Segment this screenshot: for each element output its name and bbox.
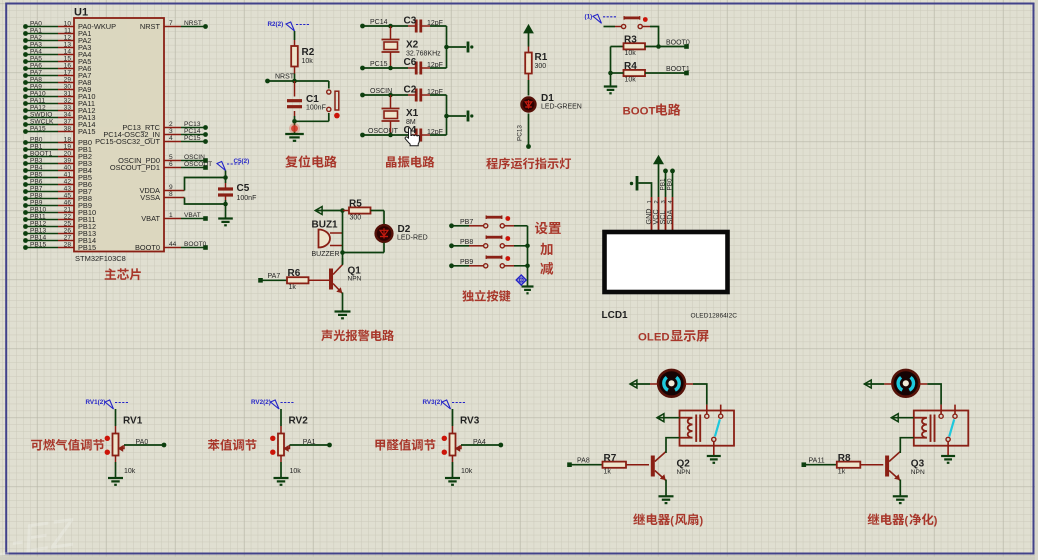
U1 pin 44 (BOOT0) with wire and node <box>135 241 208 252</box>
svg-text:VBAT: VBAT <box>184 212 201 219</box>
svg-text:17: 17 <box>64 69 72 76</box>
svg-text:(1): (1) <box>585 14 593 21</box>
wire to X1 ground bar <box>447 115 467 117</box>
potentiometer RV2 <box>270 416 308 476</box>
ground bar X2 <box>468 42 473 53</box>
crystal X2 <box>382 26 442 68</box>
svg-text:(: ( <box>905 515 909 527</box>
blue marker RV1(2) <box>86 399 129 409</box>
svg-text:SWDIO: SWDIO <box>30 111 52 118</box>
blue marker (1) <box>585 14 617 24</box>
node C1 bottom junction <box>292 119 297 124</box>
label 程序运行指示灯 <box>486 158 571 170</box>
svg-text:20: 20 <box>64 150 72 157</box>
wire button bottom to C1 <box>295 113 329 121</box>
svg-text:PB11: PB11 <box>30 213 46 220</box>
U1 pin 42 (PB6) with wire and node <box>23 178 92 189</box>
wire coil bottom Q2 <box>666 438 693 451</box>
node OSCIN terminal <box>360 93 365 98</box>
svg-text:PA6: PA6 <box>30 62 42 69</box>
svg-text:PB1: PB1 <box>660 178 667 191</box>
wire coil bottom Q3 <box>900 438 927 451</box>
wire PB8 row left <box>452 239 484 246</box>
svg-text:OSCIN: OSCIN <box>184 154 205 161</box>
wire C4 right and riser <box>422 95 447 135</box>
svg-text:RV3(2): RV3(2) <box>423 399 443 406</box>
svg-text:PB7: PB7 <box>460 219 473 226</box>
resistor R1 <box>525 52 548 74</box>
svg-text:PB10: PB10 <box>30 206 46 213</box>
wire Q3 collector <box>899 451 901 454</box>
ground below C5 <box>218 219 233 226</box>
svg-text:SDA: SDA <box>665 210 674 225</box>
wire OSCIN row <box>363 88 416 95</box>
transistor Q2 <box>651 452 691 481</box>
svg-text:LED-GREEN: LED-GREEN <box>541 104 582 111</box>
node PB0 terminal <box>670 169 675 174</box>
svg-text:PA12: PA12 <box>30 104 46 111</box>
wire Q2 emitter to ground <box>665 480 667 497</box>
U1 pin 18 (PB0) with wire and node <box>23 136 92 147</box>
node OSCOUT terminal <box>360 133 365 138</box>
svg-text:300: 300 <box>535 63 547 70</box>
node R4 junction <box>608 71 613 76</box>
svg-text:PB8: PB8 <box>30 192 43 199</box>
svg-text:34: 34 <box>64 111 72 118</box>
node PC13 terminal bottom <box>526 144 531 149</box>
resistor R8 <box>837 453 861 476</box>
wire PB9 row right <box>504 265 527 267</box>
svg-text:31: 31 <box>64 90 72 97</box>
LCD1 value label <box>691 313 738 320</box>
wire keys vertical <box>527 226 529 287</box>
label 苯值调节 <box>208 439 257 451</box>
svg-text:27: 27 <box>64 234 72 241</box>
node X2 top junction <box>388 24 393 29</box>
ground relay Q2 <box>707 456 721 463</box>
svg-text:C5(2): C5(2) <box>234 158 250 165</box>
node R3-button junction <box>656 44 661 49</box>
svg-text:(: ( <box>670 515 674 527</box>
U1 pin 20 (BOOT1) with wire and node <box>23 150 92 161</box>
svg-text:BUZ1: BUZ1 <box>312 220 339 231</box>
U1 pin 4 (PC15) with wire and node <box>95 135 208 146</box>
ground keys <box>522 287 534 294</box>
label OLED显示屏 <box>638 330 709 343</box>
wire RV3 bottom <box>452 456 454 479</box>
ground RV2 <box>274 478 289 485</box>
wire Q2 collector <box>665 451 667 454</box>
U1 pin 28 (PB15) with wire and node <box>23 241 96 252</box>
svg-text:29: 29 <box>64 76 72 83</box>
svg-text:28: 28 <box>64 241 72 248</box>
svg-text:PB12: PB12 <box>30 220 46 227</box>
wire R6 to Q1 base <box>309 279 330 281</box>
svg-text:9: 9 <box>169 184 173 191</box>
relay RL near Q2 <box>680 405 735 446</box>
U1 pin 21 (PB10) with wire and node <box>23 206 96 217</box>
svg-text:PC14: PC14 <box>184 128 201 135</box>
power flag above R1 <box>524 25 532 32</box>
svg-text:10k: 10k <box>625 77 637 84</box>
svg-text:45: 45 <box>64 192 72 199</box>
pushbutton BOOT wires <box>604 27 659 47</box>
svg-text:PB6: PB6 <box>30 178 43 185</box>
svg-text:18: 18 <box>64 136 72 143</box>
U1 pin 38 (PA15) with wire and node <box>23 125 95 136</box>
wire to X2 ground bar <box>447 46 467 48</box>
wire Q3 emitter to ground <box>899 480 901 497</box>
wire R3 left <box>611 46 624 48</box>
svg-text:NRST: NRST <box>140 22 161 31</box>
node PB9 terminal <box>449 263 454 268</box>
origin marker red glow <box>289 123 300 134</box>
svg-text:12: 12 <box>64 34 72 41</box>
wire C1 top <box>294 81 296 97</box>
power flag alarm <box>315 207 342 215</box>
wire RV2 top <box>279 409 281 434</box>
svg-text:37: 37 <box>64 118 72 125</box>
svg-text:PA7: PA7 <box>30 69 42 76</box>
U1 pin 19 (PB1) with wire and node <box>23 143 92 154</box>
relay RL near Q3 <box>914 405 969 446</box>
capacitor C2 <box>404 85 443 102</box>
svg-text:42: 42 <box>64 178 72 185</box>
label 复位电路 <box>285 155 337 167</box>
svg-text:PC14: PC14 <box>370 19 388 26</box>
svg-text:PB14: PB14 <box>30 234 46 241</box>
U1 pin 30 (PA9) with wire and node <box>23 83 91 94</box>
svg-text:46: 46 <box>64 199 72 206</box>
node PB8 terminal <box>449 243 454 248</box>
wire RV3 wiper to PA4 <box>461 439 501 446</box>
ground Q3 <box>893 496 908 503</box>
svg-text:PA4: PA4 <box>30 48 42 55</box>
svg-text:Q3: Q3 <box>911 459 925 470</box>
wire C2 right <box>422 94 447 96</box>
svg-text:1: 1 <box>647 200 653 203</box>
svg-text:PA9: PA9 <box>30 83 42 90</box>
svg-text:13: 13 <box>64 41 72 48</box>
svg-text:D2: D2 <box>398 224 411 235</box>
svg-text:PA2: PA2 <box>30 34 42 41</box>
svg-text:LED-RED: LED-RED <box>397 235 428 242</box>
U1 pin 39 (PB3) with wire and node <box>23 157 92 168</box>
U1 pin 17 (PA7) with wire and node <box>23 69 91 80</box>
wire OLED GND <box>639 183 652 197</box>
node BOOT0 terminal <box>684 44 689 49</box>
svg-text:VSSA: VSSA <box>140 193 160 202</box>
U1 pin 43 (PB7) with wire and node <box>23 185 92 196</box>
wire PA8 to R7 <box>570 458 603 465</box>
svg-text:RV2: RV2 <box>289 416 309 427</box>
svg-text:PA11: PA11 <box>30 97 45 104</box>
svg-text:BOOT: BOOT <box>623 106 656 118</box>
wire PA7 to R6 <box>261 273 288 280</box>
node PC14 terminal <box>360 24 365 29</box>
resistor R3 <box>624 35 646 58</box>
svg-text:NPN: NPN <box>348 276 362 283</box>
svg-text:26: 26 <box>64 227 72 234</box>
svg-text:4: 4 <box>169 135 173 142</box>
node PA0 terminal <box>162 443 167 448</box>
svg-text:SWCLK: SWCLK <box>30 118 54 125</box>
capacitor C3 <box>404 16 443 33</box>
label 甲醛值调节 <box>375 439 435 451</box>
svg-text:NPN: NPN <box>677 469 691 476</box>
svg-text:10k: 10k <box>290 468 302 475</box>
wire PB9 row left <box>452 259 484 266</box>
svg-text:3: 3 <box>661 200 667 203</box>
svg-text:300: 300 <box>350 215 362 222</box>
svg-text:R1: R1 <box>535 52 548 63</box>
power flag relay coil Q3 <box>891 414 927 422</box>
svg-text:PA7: PA7 <box>268 273 281 280</box>
U1 pin 33 (PA12) with wire and node <box>23 104 95 115</box>
blue marker RV2(2) <box>251 399 294 409</box>
node X2 bottom junction <box>388 66 393 71</box>
svg-text:NPN: NPN <box>911 469 925 476</box>
wire PB7 row left <box>452 219 484 226</box>
node alarm junction <box>340 250 345 255</box>
label 晶振电路 <box>386 156 434 168</box>
svg-text:U1: U1 <box>74 7 88 19</box>
capacitor C5 <box>218 183 256 202</box>
wire relay switch to ground Q3 <box>947 442 949 457</box>
node PA4 terminal <box>498 443 503 448</box>
resistor R7 <box>603 453 627 476</box>
svg-text:10k: 10k <box>461 468 473 475</box>
label 独立按键 <box>462 290 510 302</box>
wire RV2 bottom <box>280 456 282 479</box>
svg-text:10k: 10k <box>625 50 637 57</box>
svg-text:BUZZER: BUZZER <box>312 251 340 258</box>
svg-text:RV1(2): RV1(2) <box>86 399 106 406</box>
wire D1 to PC13 node <box>517 114 529 147</box>
capacitor C6 <box>404 57 443 75</box>
svg-text:R8: R8 <box>838 453 851 464</box>
svg-text:43: 43 <box>64 185 72 192</box>
node PA1 terminal <box>327 443 332 448</box>
pushbutton reset state dot <box>334 113 340 119</box>
svg-text:PB9: PB9 <box>30 199 43 206</box>
svg-text:PB0: PB0 <box>667 178 674 191</box>
U1 pin 16 (PA6) with wire and node <box>23 62 91 73</box>
svg-text:30: 30 <box>64 83 72 90</box>
ground relay Q3 <box>941 456 955 463</box>
svg-text:PB3: PB3 <box>30 157 43 164</box>
wire OSCOUT row <box>363 128 416 135</box>
power flag motor Q2 <box>630 380 658 388</box>
svg-text:RV1: RV1 <box>123 416 143 427</box>
buzzer BUZ1 <box>312 220 343 259</box>
node BOOT1 terminal <box>684 71 689 76</box>
U1 pin 27 (PB14) with wire and node <box>23 234 96 245</box>
svg-text:R2: R2 <box>302 47 315 58</box>
U1 pin 1 (VBAT) with wire and node <box>141 212 208 223</box>
U1 pin 8 VSSA wire <box>140 191 225 204</box>
U1 pin 29 (PA8) with wire and node <box>23 76 91 87</box>
svg-text:C6: C6 <box>404 57 417 68</box>
label 设置 <box>535 222 561 235</box>
wire PB7 row right <box>504 225 527 227</box>
label BOOT电路 <box>623 103 681 117</box>
wire NRST horizontal <box>268 74 329 82</box>
node VDDA-C5 junction <box>223 175 228 180</box>
LED D1 <box>522 93 582 112</box>
display LCD1 OLED12864I2C <box>605 232 728 292</box>
crystal X1 <box>382 95 419 135</box>
transistor Q1 <box>329 265 362 294</box>
LCD1 reference label <box>602 310 629 321</box>
wire motor to relay Q3 <box>919 384 941 405</box>
svg-text:10: 10 <box>64 20 72 27</box>
wire PB8 row right <box>504 245 527 247</box>
svg-text:1: 1 <box>169 212 173 219</box>
mouse cursor hand <box>405 128 419 146</box>
svg-text:2: 2 <box>654 200 660 203</box>
svg-text:PB7: PB7 <box>30 185 43 192</box>
svg-text:33: 33 <box>64 104 72 111</box>
node PB7 terminal <box>449 223 454 228</box>
node PA11 terminal <box>802 462 807 467</box>
svg-text:C1: C1 <box>306 94 319 105</box>
svg-text:BOOT0: BOOT0 <box>184 241 207 248</box>
ground RV1 <box>108 478 123 485</box>
U1 pin 34 (SWDIO) with wire and node <box>23 111 95 122</box>
svg-text:BOOT1: BOOT1 <box>30 150 53 157</box>
pushbutton PB9 <box>484 255 511 268</box>
node PB1 terminal <box>663 169 668 174</box>
wire C6 right and riser <box>422 26 447 68</box>
svg-text:6: 6 <box>169 161 173 168</box>
svg-text:R6: R6 <box>288 268 301 279</box>
node NRST terminal <box>265 79 270 84</box>
svg-text:R7: R7 <box>604 453 617 464</box>
svg-text:VBAT: VBAT <box>141 214 160 223</box>
label 可燃气值调节 <box>31 439 104 451</box>
wire Q1 collector <box>342 258 344 265</box>
svg-text:): ) <box>700 515 704 527</box>
svg-text:8: 8 <box>169 191 173 198</box>
wire R1 top <box>528 33 530 53</box>
motor fan near Q3 <box>892 370 919 397</box>
svg-text:41: 41 <box>64 171 72 178</box>
svg-text:14: 14 <box>64 48 72 55</box>
svg-text:11: 11 <box>64 27 71 34</box>
wire PC15 row <box>363 61 416 68</box>
U1 pin 7 (NRST) with wire and node <box>140 20 208 31</box>
capacitor C1 <box>287 94 326 112</box>
power flag relay coil Q2 <box>657 414 693 422</box>
svg-text:OSCOUT: OSCOUT <box>368 128 399 135</box>
svg-text:PC15-OSC32_OUT: PC15-OSC32_OUT <box>95 137 160 146</box>
svg-text:25: 25 <box>64 220 72 227</box>
wire R7 to Q2 <box>626 464 649 466</box>
blue origin marker <box>516 275 526 285</box>
svg-text:C2: C2 <box>404 85 417 96</box>
U1 pin 41 (PB5) with wire and node <box>23 171 92 182</box>
wire C1 bottom <box>294 111 296 134</box>
U1 pin 26 (PB13) with wire and node <box>23 227 96 238</box>
svg-text:PA11: PA11 <box>809 458 825 465</box>
svg-text:OLED: OLED <box>638 332 670 344</box>
wire relay switch to ground Q2 <box>713 442 715 457</box>
wire RV1 bottom <box>115 456 117 479</box>
wire R8 to Q3 <box>860 464 883 466</box>
node X1 bottom junction <box>388 133 393 138</box>
watermark <box>0 510 79 560</box>
U1 pin 5 (OSCIN) with wire and node <box>118 154 208 165</box>
potentiometer RV3 <box>442 416 480 476</box>
U1 pin 3 (PC14) with wire and node <box>103 128 208 139</box>
svg-text:PA1: PA1 <box>303 439 316 446</box>
U1 pin 15 (PA5) with wire and node <box>23 55 91 66</box>
ground below C1 <box>285 134 304 141</box>
wire R5 to D2 <box>371 211 385 225</box>
U1 pin 13 (PA3) with wire and node <box>23 41 91 52</box>
svg-text:100nF: 100nF <box>237 195 257 202</box>
U1 pin 2 (PC13) with wire and node <box>122 121 208 132</box>
svg-text:PC13: PC13 <box>184 121 201 128</box>
svg-text:STM32F103C8: STM32F103C8 <box>75 254 126 263</box>
svg-text:NRST: NRST <box>275 74 295 81</box>
node VSSA-C5 junction <box>223 202 228 207</box>
svg-text:7: 7 <box>169 20 173 27</box>
pushbutton BOOT state dot <box>643 17 648 22</box>
svg-text:PB0: PB0 <box>30 136 43 143</box>
transistor Q3 <box>885 452 925 481</box>
power flag motor Q3 <box>864 380 892 388</box>
svg-text:R3: R3 <box>624 35 637 46</box>
label 继电器(净化) <box>868 513 938 527</box>
ground bar X1 <box>468 111 473 122</box>
blue marker C5(2) <box>217 158 249 171</box>
node X2 ground junction <box>444 45 449 50</box>
svg-text:44: 44 <box>169 241 177 248</box>
wire PC14 row <box>363 19 416 26</box>
svg-text:X1: X1 <box>406 108 419 119</box>
svg-text:10k: 10k <box>302 58 314 65</box>
wire R4 row <box>611 66 690 73</box>
svg-text:PA15: PA15 <box>30 125 46 132</box>
IC U1 STM32F103C8 body <box>74 18 164 252</box>
ground BOOT <box>604 87 617 94</box>
node PA8 terminal <box>567 462 572 467</box>
svg-text:NRST: NRST <box>184 20 202 27</box>
svg-text:5: 5 <box>169 154 173 161</box>
U1 pin 6 (OSCOUT) with wire and node <box>110 161 212 172</box>
U1 pin 10 (PA0) with wire and node <box>23 20 116 31</box>
motor fan near Q2 <box>658 370 685 397</box>
svg-text:16: 16 <box>64 62 72 69</box>
wire OLED SCL <box>660 171 667 197</box>
svg-text:R4: R4 <box>624 61 637 72</box>
ground RV3 <box>445 478 460 485</box>
svg-text:PA8: PA8 <box>577 458 590 465</box>
pushbutton PB8 <box>484 235 511 248</box>
wire RV1 top <box>114 409 116 434</box>
U1 pin 12 (PA2) with wire and node <box>23 34 91 45</box>
resistor R5 <box>349 199 371 222</box>
wire alarm vertical <box>342 211 344 265</box>
U1 pin 37 (SWCLK) with wire and node <box>23 118 95 129</box>
svg-text:R2(2): R2(2) <box>268 21 284 28</box>
wire Q1 emitter to ground <box>342 293 344 312</box>
U1 pin 14 (PA4) with wire and node <box>23 48 91 59</box>
node keys junction PB8 <box>525 244 530 249</box>
power flag OLED VCC <box>654 156 663 197</box>
